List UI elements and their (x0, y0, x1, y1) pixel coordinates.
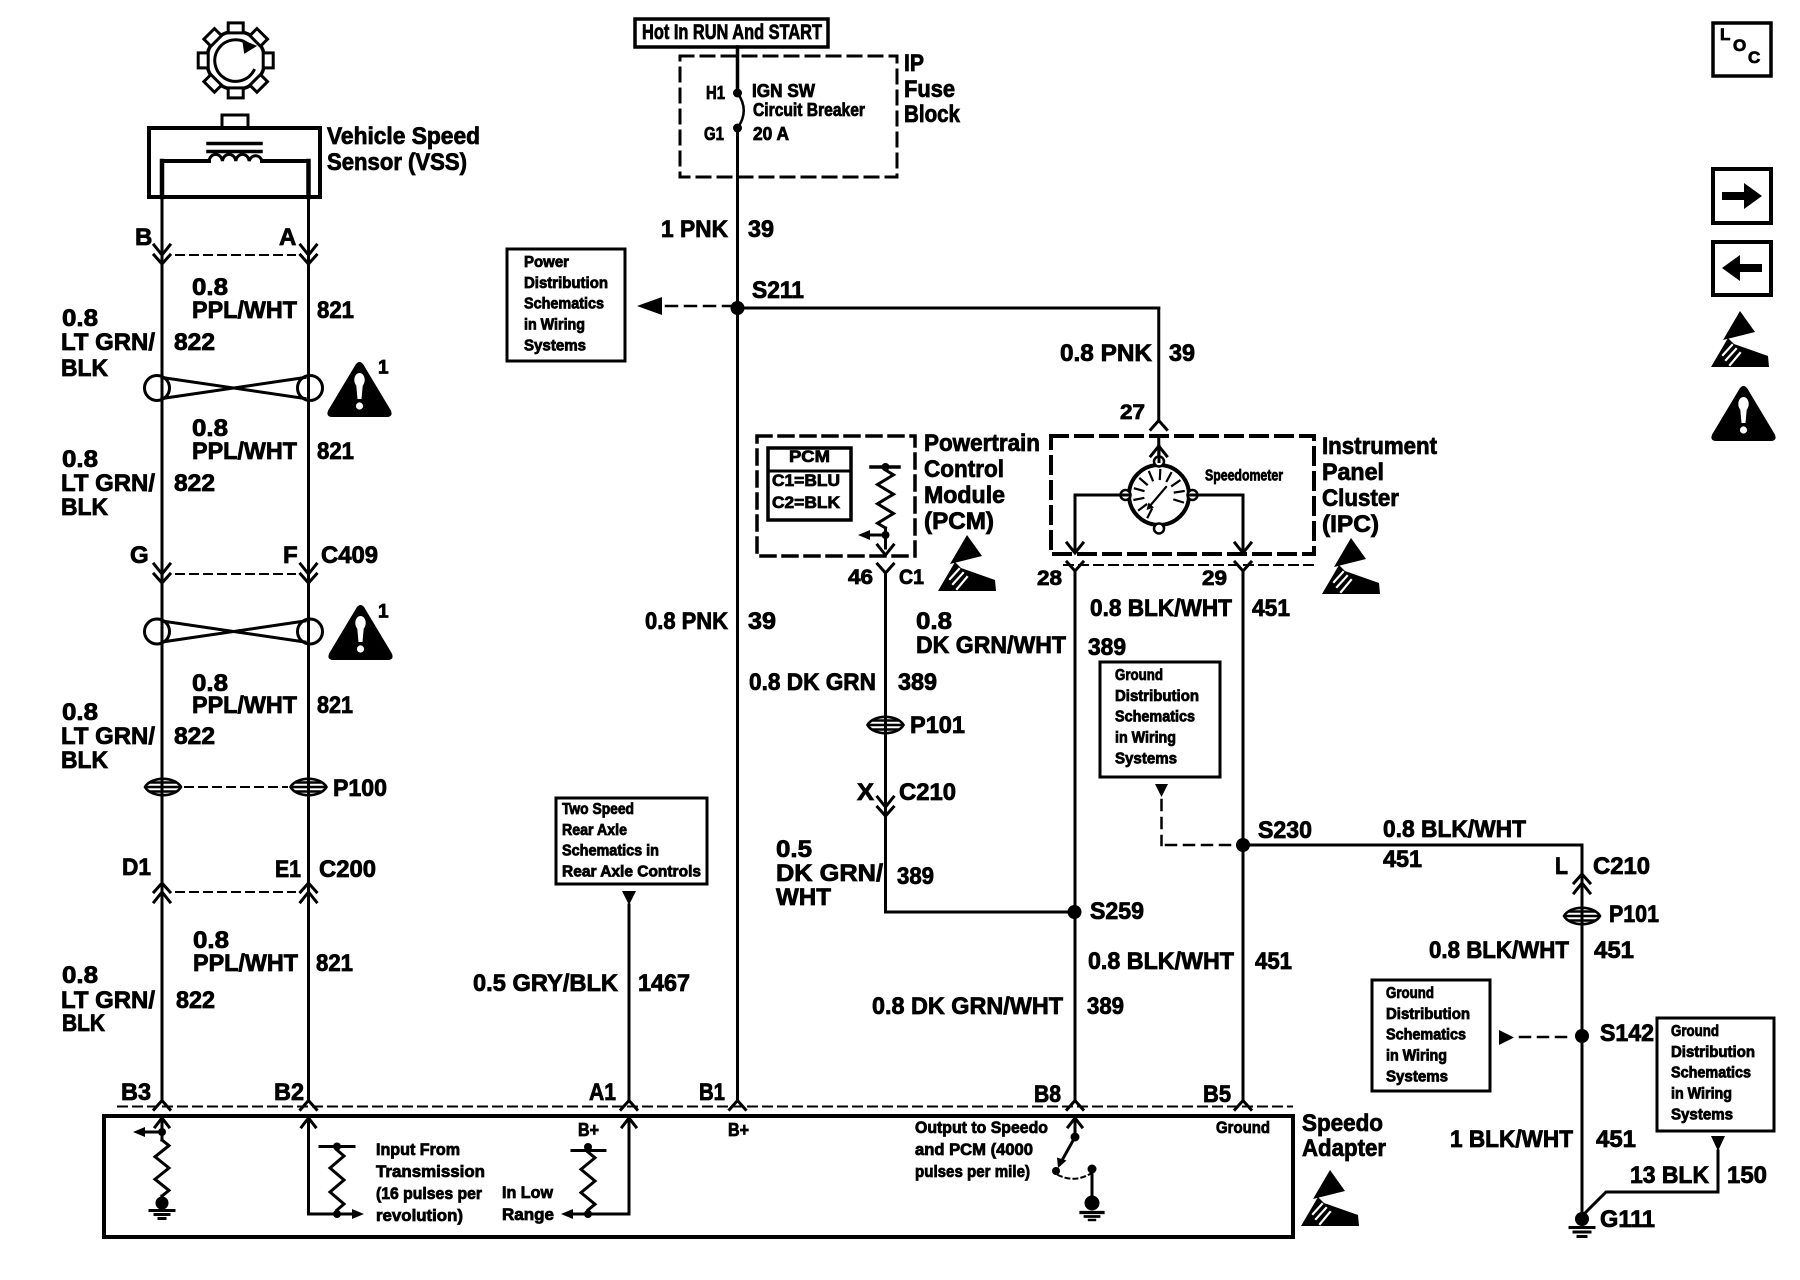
svg-text:Vehicle Speed: Vehicle Speed (327, 123, 480, 150)
svg-text:0.8 BLK/WHT: 0.8 BLK/WHT (1088, 948, 1234, 975)
svg-text:O: O (1733, 36, 1746, 55)
svg-text:B+: B+ (578, 1120, 599, 1140)
svg-text:in Wiring: in Wiring (1115, 730, 1176, 747)
svg-text:27: 27 (1120, 401, 1145, 424)
svg-text:(PCM): (PCM) (924, 508, 994, 535)
svg-text:150: 150 (1727, 1162, 1767, 1189)
wire label 0.8 BLK/WHT 451 (S230 to C210) (1383, 816, 1526, 873)
warning triangle right margin (1712, 387, 1774, 440)
svg-text:BLK: BLK (61, 494, 109, 521)
wire label 0.8 LT GRN/BLK 822 (segment 1) (61, 305, 215, 382)
ESD symbol at speedo adapter (1301, 1170, 1359, 1226)
svg-text:1: 1 (378, 602, 389, 623)
svg-text:Hot In RUN And START: Hot In RUN And START (642, 21, 822, 44)
label IGN SW Circuit Breaker 20 A (752, 81, 865, 144)
svg-text:0.8: 0.8 (62, 699, 98, 726)
wire label 0.5 DK GRN/WHT 389 (776, 836, 934, 911)
ground G111 (1570, 1206, 1655, 1236)
svg-text:DK GRN/: DK GRN/ (776, 860, 883, 887)
wire label 0.5 GRY/BLK 1467 (473, 970, 690, 997)
PCM internal VSS input resistor (858, 463, 899, 548)
svg-text:PCM: PCM (789, 447, 830, 466)
label Speedo Adapter (1302, 1110, 1386, 1162)
circuit breaker H1-G1 (IGN SW 20 A) (733, 89, 744, 133)
svg-text:0.8 PNK: 0.8 PNK (645, 608, 729, 635)
svg-text:822: 822 (174, 470, 215, 497)
svg-text:0.8 BLK/WHT: 0.8 BLK/WHT (1429, 937, 1569, 964)
svg-text:E1: E1 (275, 856, 301, 883)
svg-text:Speedo: Speedo (1302, 1110, 1383, 1137)
wire label 0.8 PPL/WHT 821 (segment 4) (193, 927, 353, 977)
connector C200 pins D1 and E1 (122, 854, 376, 902)
wire label 0.8 BLK/WHT 451 (pin 29) (1090, 595, 1290, 622)
svg-text:451: 451 (1252, 595, 1290, 622)
wire VSS pin A down (x=308.5) (307, 197, 310, 1101)
inline connector P101 (DK GRN) (868, 712, 966, 739)
ESD symbol right margin (1711, 311, 1769, 367)
wire 451 from IPC pin 29 to B5 (1242, 571, 1245, 1101)
svg-text:DK GRN/WHT: DK GRN/WHT (916, 632, 1066, 659)
label Input From Transmission (16 pulses per revolution) (376, 1140, 485, 1225)
svg-text:in Wiring: in Wiring (1386, 1048, 1447, 1065)
svg-text:821: 821 (316, 950, 353, 977)
svg-text:S259: S259 (1090, 898, 1144, 925)
svg-text:39: 39 (748, 216, 774, 243)
svg-text:0.8 PNK: 0.8 PNK (1060, 340, 1153, 367)
svg-text:0.5 GRY/BLK: 0.5 GRY/BLK (473, 970, 619, 997)
svg-text:20 A: 20 A (753, 124, 789, 144)
IPC pin 29 connector symbols (1202, 543, 1251, 590)
svg-text:451: 451 (1594, 937, 1634, 964)
svg-text:G111: G111 (1600, 1206, 1655, 1233)
speedo adapter box (104, 1116, 1293, 1237)
svg-text:LT GRN/: LT GRN/ (61, 329, 155, 356)
svg-text:(16 pulses per: (16 pulses per (376, 1184, 482, 1203)
ESD symbol at PCM (938, 535, 996, 591)
svg-text:B8: B8 (1034, 1081, 1061, 1108)
svg-text:29: 29 (1202, 567, 1227, 590)
svg-text:Speedometer: Speedometer (1205, 468, 1283, 485)
svg-text:BLK: BLK (61, 355, 109, 382)
dashed reference arrow S211 to Power Distribution box (637, 297, 731, 315)
svg-text:S211: S211 (752, 277, 804, 304)
svg-text:P101: P101 (1609, 901, 1659, 928)
svg-text:821: 821 (317, 692, 353, 719)
svg-text:B5: B5 (1203, 1081, 1231, 1108)
svg-text:Ground: Ground (1386, 985, 1434, 1002)
svg-text:46: 46 (848, 566, 873, 589)
prev-page arrow icon (1713, 242, 1771, 295)
svg-text:28: 28 (1037, 567, 1062, 590)
wire label 0.8 DK GRN 389 (749, 669, 937, 696)
wire VSS pin B down (x=162) (161, 197, 164, 1101)
svg-text:822: 822 (176, 987, 215, 1014)
svg-text:821: 821 (317, 438, 354, 465)
splice S142 (1575, 1020, 1654, 1047)
wire drop to G111 (x=1582) (1581, 845, 1584, 1219)
pin labels B3 B2 A1 B1 B8 B5 (121, 1079, 1231, 1108)
svg-text:13 BLK: 13 BLK (1630, 1162, 1710, 1189)
svg-text:H1: H1 (706, 83, 725, 103)
reference box Two Speed Rear Axle Schematics in Rear Axle Controls (556, 798, 707, 884)
svg-text:Fuse: Fuse (904, 76, 955, 103)
svg-text:Power: Power (524, 254, 569, 271)
twisted-pair symbol 1 on wires 821/822 (145, 376, 323, 401)
pin B1 fork into speedo adapter (730, 1101, 746, 1110)
svg-text:and PCM (4000: and PCM (4000 (915, 1140, 1033, 1159)
svg-text:Systems: Systems (1671, 1106, 1733, 1123)
wire 13 BLK 150 from reference box to G111 (1582, 1136, 1725, 1216)
svg-text:1 BLK/WHT: 1 BLK/WHT (1450, 1126, 1573, 1153)
svg-text:in Wiring: in Wiring (1671, 1086, 1732, 1103)
splice S230 (1236, 817, 1312, 852)
wire label 0.8 DK GRN/WHT 389 (pin 28) (916, 608, 1126, 661)
svg-text:Schematics: Schematics (1386, 1027, 1466, 1044)
speedo adapter internal: B2 transmission input resistor (302, 1118, 365, 1219)
wire into fuse block (736, 47, 740, 93)
svg-text:D1: D1 (122, 854, 151, 881)
svg-text:Powertrain: Powertrain (924, 430, 1040, 457)
svg-text:822: 822 (174, 329, 215, 356)
label Output to Speedo and PCM (4000 pulses per mile) (915, 1118, 1048, 1181)
speedo adapter internal: B3 output resistor to ground (133, 1118, 174, 1219)
connector C409 pins G and F (130, 542, 378, 583)
label B+ at pin B1 (728, 1120, 749, 1140)
svg-text:0.8 BLK/WHT: 0.8 BLK/WHT (1383, 816, 1526, 843)
svg-text:Transmission: Transmission (376, 1162, 485, 1181)
wire speedometer feed from pin 27 (1158, 446, 1161, 462)
wire label 1 BLK/WHT 451 (1450, 1126, 1636, 1153)
svg-text:Ground: Ground (1216, 1118, 1270, 1137)
wire label 1 PNK 39 (661, 216, 774, 243)
wire label 0.8 PPL/WHT 821 (segment 3) (192, 670, 353, 719)
svg-text:BLK: BLK (62, 1010, 106, 1037)
label Speedometer (1205, 468, 1283, 485)
svg-text:L: L (1555, 853, 1568, 880)
IPC connector line under cluster (1064, 564, 1313, 566)
svg-text:Ground: Ground (1115, 667, 1163, 684)
wire label 0.8 PPL/WHT 821 (segment 1) (192, 274, 354, 324)
svg-text:PPL/WHT: PPL/WHT (192, 692, 297, 719)
svg-text:In Low: In Low (502, 1183, 554, 1202)
svg-text:F: F (283, 542, 298, 569)
svg-text:Input From: Input From (376, 1140, 460, 1159)
svg-text:C210: C210 (899, 779, 956, 806)
svg-text:39: 39 (748, 608, 776, 635)
wire label 13 BLK 150 (1630, 1162, 1767, 1189)
label In Low Range (502, 1183, 554, 1224)
svg-text:Circuit Breaker: Circuit Breaker (753, 100, 865, 120)
label G1 (704, 124, 724, 144)
label Vehicle Speed Sensor (VSS) (327, 123, 480, 176)
svg-text:0.8 DK GRN/WHT: 0.8 DK GRN/WHT (872, 993, 1063, 1020)
svg-text:G: G (130, 542, 149, 569)
svg-text:451: 451 (1383, 846, 1422, 873)
svg-text:Systems: Systems (524, 337, 586, 354)
wire label 0.8 BLK/WHT 451 (S259 to B8... pin29 lower) (1088, 948, 1292, 975)
dashed reference arrow to S142 (1499, 1030, 1572, 1045)
svg-text:Control: Control (924, 456, 1004, 483)
splice S259 (1068, 898, 1145, 925)
ESD symbol at IPC (1322, 538, 1380, 594)
svg-text:C210: C210 (1593, 853, 1650, 880)
svg-text:P100: P100 (333, 775, 387, 802)
PCM pin 46 connector symbols (848, 545, 924, 589)
warning note triangle 1 (upper) (328, 358, 390, 416)
svg-text:Two Speed: Two Speed (562, 801, 634, 818)
pin A1 fork into speedo adapter (621, 1101, 637, 1110)
IPC pin 28 connector symbols (1037, 543, 1083, 590)
svg-text:Instrument: Instrument (1322, 433, 1437, 460)
svg-text:Panel: Panel (1322, 459, 1384, 486)
splice S211 (731, 277, 805, 315)
svg-text:PPL/WHT: PPL/WHT (192, 297, 297, 324)
wire 0.5 GRY/BLK 1467 to A1 (622, 891, 636, 1101)
inline connector P101 (BLK/WHT) (1564, 901, 1659, 928)
svg-text:B2: B2 (274, 1079, 304, 1106)
svg-text:A1: A1 (589, 1079, 616, 1106)
wire 389 from IPC pin 28 to B8 (1074, 571, 1077, 1101)
speedo adapter internal: B8 output switch to ground (1052, 1118, 1103, 1220)
wire label 0.8 LT GRN/BLK 822 (segment 2) (61, 446, 215, 521)
svg-text:C2=BLK: C2=BLK (772, 493, 841, 512)
svg-text:Adapter: Adapter (1302, 1135, 1386, 1162)
wire speedometer left terminal to pin 28 drop (1075, 495, 1129, 552)
svg-text:L: L (1720, 25, 1730, 44)
svg-text:B: B (135, 224, 152, 251)
twisted-pair symbol 2 on wires 821/822 (145, 619, 323, 644)
svg-text:B+: B+ (728, 1120, 749, 1140)
wire 1 PNK 39 from breaker down to B1 (736, 128, 739, 1101)
svg-text:PPL/WHT: PPL/WHT (192, 438, 297, 465)
pin B5 fork into speedo adapter (1235, 1101, 1251, 1110)
svg-text:389: 389 (897, 863, 934, 890)
connector at VSS pins B and A (135, 224, 317, 264)
connector C210 pin X symbols (857, 779, 956, 816)
svg-text:revolution): revolution) (376, 1206, 463, 1225)
svg-text:A: A (279, 224, 296, 251)
inline connector P100 on both wires (145, 775, 387, 802)
svg-text:Rear Axle Controls: Rear Axle Controls (562, 864, 701, 881)
pin B8 fork into speedo adapter (1067, 1101, 1083, 1110)
wire elbow to S259 (886, 911, 1075, 914)
reference box Ground Distribution Schematics in Wiring Systems (13 BLK) (1657, 1018, 1774, 1131)
label Instrument Panel Cluster (IPC) (1322, 433, 1437, 538)
flag box Hot In RUN And START (635, 19, 828, 47)
label Ground at pin B5 (1216, 1118, 1270, 1137)
svg-text:P101: P101 (910, 712, 965, 739)
svg-text:S230: S230 (1258, 817, 1312, 844)
PCM name box (PCM / C1=BLU / C2=BLK) (768, 447, 851, 520)
connector C210 pin L symbols (1555, 853, 1650, 893)
svg-text:PPL/WHT: PPL/WHT (193, 950, 298, 977)
wire riser down to IPC pin 27 (x=1158.75) (1157, 308, 1160, 420)
svg-text:Systems: Systems (1115, 750, 1177, 767)
svg-text:Schematics in: Schematics in (562, 843, 659, 860)
svg-text:Range: Range (502, 1205, 554, 1224)
svg-text:IP: IP (904, 50, 924, 77)
VSS pickup coil with core (162, 144, 309, 198)
svg-text:Schematics: Schematics (524, 296, 604, 313)
svg-text:G1: G1 (704, 124, 724, 144)
wire from S211 right to IPC pin 27 riser (738, 307, 1159, 310)
svg-text:C: C (1748, 48, 1760, 67)
reference box Power Distribution Schematics in Wiring Systems (507, 249, 625, 361)
speedo adapter internal: A1 low-range resistor (561, 1118, 636, 1219)
svg-text:39: 39 (1169, 340, 1195, 367)
svg-text:1467: 1467 (638, 970, 690, 997)
svg-text:Module: Module (924, 482, 1005, 509)
svg-text:Output to Speedo: Output to Speedo (915, 1118, 1048, 1137)
svg-text:389: 389 (898, 669, 937, 696)
svg-text:Ground: Ground (1671, 1023, 1719, 1040)
svg-text:389: 389 (1087, 993, 1124, 1020)
svg-text:Block: Block (904, 101, 961, 128)
svg-text:0.8 DK GRN: 0.8 DK GRN (749, 669, 876, 696)
reference box Ground Distribution Schematics in Wiring Systems (IPC ground) (1100, 662, 1220, 777)
svg-text:Distribution: Distribution (1671, 1044, 1755, 1061)
IPC dashed outline (1051, 436, 1314, 554)
svg-text:IGN SW: IGN SW (752, 81, 815, 101)
vehicle speed sensor VSS housing box (149, 115, 320, 197)
svg-text:LT GRN/: LT GRN/ (61, 470, 155, 497)
svg-text:Schematics: Schematics (1671, 1065, 1751, 1082)
pin B2 fork into speedo adapter (301, 1101, 317, 1110)
svg-text:821: 821 (317, 297, 354, 324)
svg-text:B3: B3 (121, 1079, 151, 1106)
dashed reference link to S230 (1155, 784, 1232, 845)
gear wheel icon (rotating target) above VSS (198, 23, 273, 98)
speedo adapter connector row (dashed) (118, 1106, 1292, 1108)
svg-text:in Wiring: in Wiring (524, 317, 585, 334)
IPC pin 27 connector symbols (1120, 401, 1167, 460)
svg-text:0.8: 0.8 (62, 446, 98, 473)
svg-text:1 PNK: 1 PNK (661, 216, 729, 243)
svg-text:WHT: WHT (776, 884, 831, 911)
wire label 0.8 LT GRN/BLK 822 (segment 4) (61, 962, 215, 1037)
svg-text:0.8 BLK/WHT: 0.8 BLK/WHT (1090, 595, 1232, 622)
pin B3 fork into speedo adapter (154, 1101, 170, 1110)
svg-text:Rear Axle: Rear Axle (562, 822, 627, 839)
IP fuse block dashed outline (680, 56, 897, 177)
svg-text:451: 451 (1255, 948, 1292, 975)
svg-text:0.8: 0.8 (916, 608, 952, 635)
speedometer gauge in IPC (1121, 457, 1198, 534)
svg-text:0.8: 0.8 (62, 962, 98, 989)
svg-text:(IPC): (IPC) (1322, 511, 1379, 538)
svg-text:LT GRN/: LT GRN/ (61, 723, 155, 750)
warning note triangle 2 (lower) (329, 602, 391, 659)
svg-text:Distribution: Distribution (1386, 1006, 1470, 1023)
svg-text:Schematics: Schematics (1115, 709, 1195, 726)
wire label 0.8 DK GRN/WHT 389 (S259 to B8) (872, 993, 1124, 1020)
svg-text:Cluster: Cluster (1322, 485, 1399, 512)
wire label 0.8 PNK 39 (IPC feed) (1060, 340, 1195, 367)
svg-text:BLK: BLK (61, 747, 109, 774)
svg-text:Distribution: Distribution (524, 275, 608, 292)
next-page arrow icon (1713, 169, 1771, 223)
svg-text:pulses per mile): pulses per mile) (915, 1162, 1030, 1181)
svg-text:C1: C1 (899, 566, 924, 589)
svg-text:C409: C409 (321, 542, 378, 569)
wire label 0.8 PNK 39 (B1 feed) (645, 608, 776, 635)
svg-text:0.5: 0.5 (776, 836, 812, 863)
wire 0.8 DK GRN 389 from PCM pin 46 (884, 573, 887, 912)
svg-text:Sensor (VSS): Sensor (VSS) (327, 149, 467, 176)
svg-text:X: X (857, 779, 874, 806)
svg-text:C200: C200 (319, 856, 376, 883)
wire S230 right to C210 pin L (1243, 844, 1582, 847)
label Powertrain Control Module (PCM) (924, 430, 1040, 535)
svg-text:Systems: Systems (1386, 1068, 1448, 1085)
svg-text:B1: B1 (699, 1079, 725, 1106)
wire label 0.8 PPL/WHT 821 (segment 2) (192, 415, 354, 465)
svg-text:451: 451 (1596, 1126, 1636, 1153)
svg-text:1: 1 (378, 358, 389, 379)
label IP Fuse Block (904, 50, 961, 128)
reference box Ground Distribution Schematics in Wiring Systems (S142) (1372, 980, 1490, 1091)
LOC legend icon (1713, 23, 1771, 76)
svg-text:822: 822 (174, 723, 215, 750)
label H1 (706, 83, 725, 103)
svg-text:0.8: 0.8 (62, 305, 98, 332)
wire label 0.8 LT GRN/BLK 822 (segment 3) (61, 699, 215, 774)
svg-text:C1=BLU: C1=BLU (772, 471, 840, 490)
wire label 0.8 BLK/WHT 451 (below P101) (1429, 937, 1634, 964)
svg-text:S142: S142 (1600, 1020, 1654, 1047)
PCM dashed outline (757, 436, 915, 556)
svg-text:Distribution: Distribution (1115, 688, 1199, 705)
wire speedometer right terminal to pin 29 drop (1190, 495, 1244, 552)
svg-text:389: 389 (1088, 634, 1126, 661)
